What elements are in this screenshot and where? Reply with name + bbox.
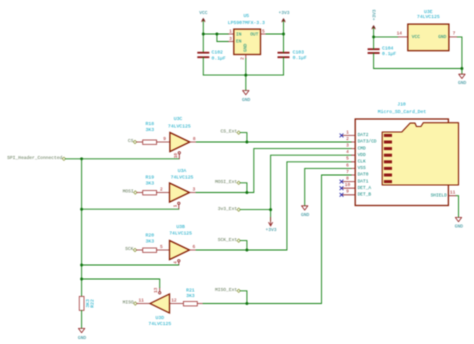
svg-text:0.1µF: 0.1µF <box>293 55 307 61</box>
svg-text:3v3_Ext: 3v3_Ext <box>218 206 238 212</box>
micro SD card drawing <box>382 123 458 185</box>
svg-text:3K3: 3K3 <box>186 293 195 299</box>
svg-text:VSS: VSS <box>358 165 366 171</box>
pin 8 <box>190 141 197 143</box>
svg-text:GND: GND <box>242 43 248 51</box>
wire MISO staircase to SD pin7 <box>203 175 352 304</box>
wire SCK staircase to SD pin5 <box>196 162 352 250</box>
svg-text:CS: CS <box>128 138 134 144</box>
node junction enable D <box>80 278 83 281</box>
svg-text:MOSI: MOSI <box>123 189 134 195</box>
svg-text:MISO: MISO <box>123 300 134 306</box>
op-amp U5 regulator body <box>228 13 265 55</box>
svg-text:4: 4 <box>173 261 179 264</box>
capacitor C104 <box>368 45 397 57</box>
wire CS to SD pin2 <box>196 141 351 143</box>
pin 11 <box>137 303 150 305</box>
resistor R21 <box>183 287 203 306</box>
svg-text:74LVC125: 74LVC125 <box>171 174 194 180</box>
svg-text:1: 1 <box>346 129 349 135</box>
svg-text:DAT0: DAT0 <box>358 172 369 178</box>
pin 4 VDD <box>346 149 366 158</box>
svg-text:MISO_Ext: MISO_Ext <box>215 287 237 293</box>
net label MISO_Ext <box>215 287 247 304</box>
svg-text:U3D: U3D <box>156 315 165 321</box>
svg-text:U3A: U3A <box>178 168 187 174</box>
power flag +3V3 top <box>278 10 289 34</box>
node junction SCK ext <box>245 249 248 252</box>
svg-text:7: 7 <box>346 169 349 175</box>
svg-text:C102: C102 <box>212 50 224 56</box>
svg-text:12: 12 <box>171 297 177 303</box>
pin 2 U5 <box>245 55 247 59</box>
svg-text:SHIELD: SHIELD <box>431 192 448 198</box>
pin 7 U3E <box>449 36 457 38</box>
pin 9 DET_B (NC) <box>340 189 372 198</box>
svg-text:SPI_Header_Connected: SPI_Header_Connected <box>7 155 62 161</box>
svg-text:1: 1 <box>229 28 232 34</box>
svg-text:C104: C104 <box>382 45 394 51</box>
wire VCC stem <box>202 21 204 53</box>
pin 2 DAT3/CD <box>346 136 377 145</box>
pin 4 enable U3B <box>173 260 180 265</box>
svg-text:DET_A: DET_A <box>358 185 372 191</box>
svg-text:6: 6 <box>346 162 349 168</box>
svg-text:GND: GND <box>438 34 446 40</box>
card pad 7 <box>384 174 392 177</box>
svg-text:GND: GND <box>458 80 467 86</box>
svg-text:VCC: VCC <box>199 10 208 16</box>
svg-text:GND: GND <box>455 224 464 230</box>
pin 3 CMD <box>346 143 366 152</box>
wire EN elbow <box>217 34 229 42</box>
pin 3 <box>190 192 197 194</box>
node junction MISO ext <box>245 302 248 305</box>
net label CS_Ext <box>221 129 247 143</box>
node junction rail top <box>80 157 83 160</box>
ground shield <box>455 217 464 229</box>
svg-text:3K3: 3K3 <box>146 239 155 245</box>
capacitor C102 <box>197 50 226 62</box>
op-amp U3D buffer (mirrored) <box>148 294 171 327</box>
wire MOSI staircase to SD pin3 <box>196 149 352 193</box>
svg-text:1: 1 <box>173 204 179 207</box>
pin 12 <box>170 303 184 305</box>
svg-text:CS_Ext: CS_Ext <box>221 129 238 135</box>
net label CS <box>128 138 137 144</box>
ground under U3E <box>458 69 467 87</box>
op-amp U3B buffer <box>169 224 192 260</box>
svg-text:3: 3 <box>229 36 232 42</box>
svg-text:2: 2 <box>346 136 349 142</box>
resistor R18 <box>137 121 170 144</box>
wire pin7 to gnd <box>457 37 462 69</box>
svg-text:R18: R18 <box>146 121 155 127</box>
pin 13 enable U3D <box>153 287 161 294</box>
card pad 8 <box>384 180 392 183</box>
svg-text:0.1µF: 0.1µF <box>212 55 226 61</box>
svg-text:74LVC125: 74LVC125 <box>168 123 191 129</box>
svg-text:GND: GND <box>242 97 251 103</box>
svg-text:IN: IN <box>236 31 242 37</box>
net label MOSI_Ext <box>215 179 247 193</box>
pin 6 <box>190 249 197 251</box>
svg-text:5: 5 <box>346 156 349 162</box>
wire enable A <box>82 208 179 210</box>
svg-text:LP5907MFX-3.3: LP5907MFX-3.3 <box>228 20 265 26</box>
power flag VCC <box>199 10 208 22</box>
svg-text:3K3: 3K3 <box>146 180 155 186</box>
pin 8 DAT1 (NC) <box>340 176 369 185</box>
card pad 5 <box>384 160 392 163</box>
svg-text:DAT2: DAT2 <box>358 132 369 138</box>
wire C103 leads <box>283 34 285 52</box>
svg-text:DAT3/CD: DAT3/CD <box>358 139 377 145</box>
svg-text:5: 5 <box>160 244 163 250</box>
svg-text:+3V3: +3V3 <box>265 227 276 233</box>
svg-text:7: 7 <box>453 31 456 37</box>
svg-text:U3C: U3C <box>174 116 183 122</box>
net label 3v3_Ext <box>218 206 241 212</box>
node junction MOSI ext <box>245 191 248 194</box>
svg-text:DET_B: DET_B <box>358 192 372 198</box>
net label MISO <box>123 300 137 306</box>
pin 6 VSS <box>346 162 366 171</box>
ground under U5 <box>242 91 251 104</box>
node junction enable B <box>80 264 83 267</box>
svg-text:2: 2 <box>239 57 245 60</box>
wire shield to gnd <box>456 196 458 218</box>
svg-text:3: 3 <box>346 143 349 149</box>
wire C104 leads <box>373 37 375 49</box>
capacitor C103 <box>278 50 308 62</box>
wire VCC to U5 IN <box>203 33 228 35</box>
wire VSS <box>305 168 352 205</box>
wire R22 to gnd <box>81 310 83 328</box>
node junction enable A <box>80 208 83 211</box>
wire enable D <box>82 279 160 288</box>
svg-text:3: 3 <box>193 186 196 192</box>
svg-text:10: 10 <box>345 182 351 188</box>
node junction CS ext <box>245 141 248 144</box>
svg-text:11: 11 <box>138 297 144 303</box>
card pad 1 <box>384 134 392 137</box>
power flag +3V3 vertical <box>371 9 377 37</box>
resistor R19 <box>137 174 170 195</box>
svg-text:74LVC125: 74LVC125 <box>169 231 192 237</box>
svg-text:3K3: 3K3 <box>146 127 155 133</box>
svg-text:SCK_Ext: SCK_Ext <box>218 237 238 243</box>
svg-text:VCC: VCC <box>412 34 420 40</box>
pin 11 SHIELD <box>431 189 457 198</box>
svg-text:14: 14 <box>397 31 403 37</box>
wire bottom rail regulator <box>203 74 283 76</box>
connector J10 body <box>355 102 448 206</box>
svg-text:5: 5 <box>262 28 265 34</box>
svg-text:DAT1: DAT1 <box>358 178 369 184</box>
wire 3v3 rail to SD pin4 <box>271 155 352 209</box>
node junction gnd rail <box>244 74 247 77</box>
wire enable B <box>82 264 179 266</box>
ground under R22 <box>78 328 87 341</box>
svg-text:OUT: OUT <box>250 31 258 37</box>
svg-text:R21: R21 <box>186 287 195 293</box>
svg-text:Micro_SD_Card_Det: Micro_SD_Card_Det <box>378 109 427 115</box>
svg-text:VDD: VDD <box>358 152 366 158</box>
svg-text:R22: R22 <box>90 299 96 308</box>
wire +3v3 to pin14 <box>374 36 398 38</box>
pin 1 U5 <box>229 33 234 35</box>
pin 1 DAT2 (NC) <box>340 129 369 138</box>
wire 3v3 ext <box>240 209 270 211</box>
svg-text:4: 4 <box>346 149 349 155</box>
pin 1 enable U3A <box>173 202 180 209</box>
svg-text:9: 9 <box>163 136 166 142</box>
svg-text:8: 8 <box>193 136 196 142</box>
wire U5 gnd down <box>245 59 247 91</box>
ground VSS <box>301 206 310 218</box>
svg-text:U3B: U3B <box>176 224 185 230</box>
power flag +3V3 down <box>265 210 276 233</box>
svg-text:9: 9 <box>346 189 349 195</box>
svg-text:+3V3: +3V3 <box>371 9 377 20</box>
svg-text:74LVC125: 74LVC125 <box>417 14 440 20</box>
svg-text:R20: R20 <box>146 233 155 239</box>
card pad 4 <box>384 154 392 157</box>
net label MOSI <box>123 189 137 195</box>
net label SPI_Header_Connected <box>7 155 65 161</box>
node junction u3e <box>372 35 375 38</box>
svg-text:MOSI_Ext: MOSI_Ext <box>215 179 237 185</box>
node junction EN <box>215 33 218 36</box>
node junction gnd u3e <box>460 67 463 70</box>
node junction OUT <box>282 33 285 36</box>
svg-text:U5: U5 <box>243 13 249 19</box>
net label SCK_Ext <box>218 237 247 250</box>
op-amp U3A buffer <box>170 168 194 202</box>
pin 3 U5 <box>229 41 234 43</box>
svg-text:EN: EN <box>236 38 242 44</box>
wire C102 bottom <box>202 57 204 75</box>
svg-text:GND: GND <box>301 212 310 218</box>
pin 7 DAT0 <box>346 169 369 178</box>
svg-text:C103: C103 <box>293 50 305 56</box>
pin 5 CLK <box>346 156 366 165</box>
pin 14 U3E <box>398 36 408 38</box>
wire U3E bottom rail <box>374 68 462 70</box>
svg-text:CLK: CLK <box>358 159 366 165</box>
svg-text:GND: GND <box>78 335 87 341</box>
op-amp U3C buffer <box>168 116 191 151</box>
svg-text:11: 11 <box>450 189 456 195</box>
svg-text:2: 2 <box>160 187 163 193</box>
resistor R20 <box>137 233 170 253</box>
card pad 3 <box>384 147 392 150</box>
net label SCK <box>125 246 137 252</box>
resistor R22 <box>79 296 95 310</box>
svg-text:74LVC125: 74LVC125 <box>148 321 171 327</box>
svg-text:8: 8 <box>346 176 349 182</box>
wire SPI header <box>65 158 179 160</box>
pin 10 enable U3C <box>173 152 180 159</box>
svg-text:0.1µF: 0.1µF <box>382 51 396 57</box>
pin 5 U5 <box>261 33 266 35</box>
svg-text:CMD: CMD <box>358 145 366 151</box>
node junction VCC <box>202 33 205 36</box>
svg-text:SCK: SCK <box>125 246 134 252</box>
wire OUT to +3V3 <box>266 33 284 35</box>
svg-text:R19: R19 <box>146 174 155 180</box>
svg-text:10: 10 <box>173 153 179 159</box>
svg-text:+3V3: +3V3 <box>278 10 289 16</box>
svg-text:6: 6 <box>193 244 196 250</box>
op-amp U3E power body <box>408 9 449 51</box>
card pad 6 <box>384 167 392 170</box>
svg-text:J10: J10 <box>397 102 406 108</box>
pin 10 DET_A (NC) <box>340 182 372 191</box>
svg-text:13: 13 <box>153 287 159 293</box>
card pad 2 <box>384 141 392 144</box>
node junction 3v3 <box>269 208 272 211</box>
wire left rail <box>81 159 83 297</box>
